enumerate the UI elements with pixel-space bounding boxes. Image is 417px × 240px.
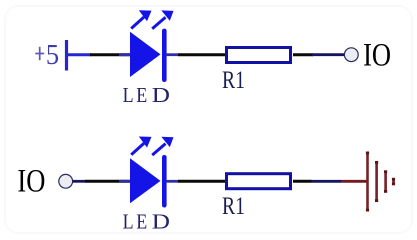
wire (LED cathode pin, blue): [166, 53, 178, 56]
wire (black segment from R1): [293, 180, 312, 183]
svg-text:LED: LED: [123, 83, 170, 107]
wire (black segment to R1): [178, 180, 226, 183]
svg-text:5: 5: [46, 40, 59, 71]
LED light arrow 2 (bottom): [152, 137, 173, 155]
wire (navy pin from port): [73, 180, 86, 183]
LED anode triangle (bottom): [130, 158, 161, 203]
wire (black segment to LED): [90, 53, 131, 56]
svg-text:IO: IO: [363, 38, 391, 74]
svg-text:R1: R1: [222, 193, 245, 220]
wire (LED cathode pin, blue): [166, 180, 178, 183]
LED anode triangle (top): [130, 32, 161, 77]
LED light arrow 1: [131, 10, 151, 28]
wire (power pin, blue): [66, 53, 91, 56]
svg-text:IO: IO: [17, 164, 45, 200]
wire (LED anode pin, navy): [119, 53, 131, 56]
wire (black segment from R1): [293, 53, 313, 56]
power net label +5: [35, 40, 59, 71]
LED light arrow 2: [152, 10, 173, 28]
svg-text:LED: LED: [123, 209, 170, 233]
wire (navy segment): [312, 180, 342, 183]
ground bar 2: [375, 161, 378, 202]
resistor R1 (top): [227, 48, 291, 63]
LED cathode bar (top): [162, 29, 167, 82]
ground bar 3: [384, 170, 387, 193]
wire (LED anode pin, navy): [119, 180, 131, 183]
ground bar 4: [392, 178, 395, 186]
LED cathode bar (bottom): [162, 155, 167, 208]
wire (black segment to LED): [85, 180, 131, 183]
wire (maroon segment to ground): [341, 180, 368, 183]
LED light arrow 1 (bottom): [131, 137, 151, 155]
IO port circle (top): [344, 48, 358, 62]
ground bar 1: [366, 152, 369, 212]
resistor R1 (bottom): [227, 174, 291, 189]
power port bar: [65, 40, 68, 71]
IO port circle (bottom): [59, 174, 73, 188]
wire (navy segment to IO port): [312, 53, 345, 56]
wire (black segment to R1): [178, 53, 226, 56]
svg-text:R1: R1: [222, 67, 245, 94]
